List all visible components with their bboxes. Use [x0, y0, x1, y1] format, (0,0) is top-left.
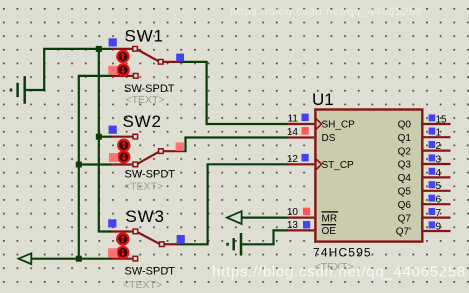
blue marker pin 15 — [429, 114, 436, 121]
SW2 knob down — [118, 151, 129, 162]
svg-text:3: 3 — [436, 154, 442, 165]
blue marker pin 3 — [429, 154, 436, 161]
svg-text:https://blog.csdn.net/qq_44065: https://blog.csdn.net/qq_44065258 — [230, 6, 423, 18]
terminal arrow T1 — [19, 253, 32, 264]
switch SW1 — [108, 26, 184, 106]
clock chevron ST_CP — [316, 159, 321, 169]
switch SW2 — [109, 112, 184, 193]
svg-text:SW-SPDT: SW-SPDT — [125, 169, 176, 181]
pin 10 stub — [288, 217, 315, 219]
pin 1 stub — [423, 136, 451, 138]
svg-text:U1: U1 — [312, 90, 334, 109]
SW3 knob up — [117, 233, 128, 244]
salmon marker SW3 — [108, 248, 117, 257]
junction at bus B / SW3 bottom wire — [76, 256, 82, 262]
SW1 knob up — [117, 51, 128, 62]
svg-text:74HC595: 74HC595 — [313, 245, 372, 259]
svg-text:SW1: SW1 — [125, 26, 164, 45]
SW1 terminal square top — [133, 47, 138, 52]
wire bus A vertical — [99, 49, 112, 232]
SW2 pole stub — [164, 150, 184, 152]
svg-text:https://blog.csdn.net/qq_44065: https://blog.csdn.net/qq_44065258 — [212, 264, 466, 281]
svg-text:10: 10 — [287, 207, 299, 218]
svg-text:Q5: Q5 — [398, 187, 412, 198]
svg-text:<TEXT>: <TEXT> — [123, 279, 162, 291]
SW3 pin stub bottom — [112, 258, 133, 260]
svg-text:SW3: SW3 — [126, 207, 165, 226]
U1 body — [315, 110, 422, 242]
pin 14 stub — [288, 136, 315, 138]
svg-text:4: 4 — [436, 168, 442, 179]
pin 13 stub — [288, 229, 315, 231]
svg-text:15: 15 — [436, 114, 448, 125]
blue marker pin 9 — [429, 221, 436, 228]
SW3 pole square — [160, 242, 165, 247]
pin 4 stub — [423, 176, 451, 178]
svg-text:Q4: Q4 — [398, 173, 412, 184]
SW3 terminal square bottom — [133, 256, 138, 261]
svg-text:SW-SPDT: SW-SPDT — [125, 266, 176, 278]
red marker pin 14 — [302, 127, 309, 135]
svg-text:SH_CP: SH_CP — [322, 120, 356, 131]
svg-text:SW2: SW2 — [123, 112, 162, 131]
SW1 pole square — [158, 60, 163, 65]
blue marker SW3 pole — [177, 235, 185, 243]
wire SW1 pole to pin SH_CP — [181, 62, 289, 124]
SW2 knob up — [118, 140, 129, 151]
svg-text:13: 13 — [287, 220, 299, 231]
SW1 lever — [137, 50, 158, 62]
svg-text:Q6: Q6 — [398, 200, 412, 211]
wire SW2 top branch — [99, 136, 112, 138]
pin 15 stub — [423, 123, 451, 125]
SW3 pin stub top — [112, 230, 133, 232]
svg-text:1: 1 — [436, 128, 442, 139]
SW3 knob down — [117, 247, 128, 258]
blue marker pin 6 — [429, 195, 436, 202]
wire SW2 bottom branch — [79, 163, 113, 165]
svg-text:Q7: Q7 — [398, 213, 412, 224]
svg-text:12: 12 — [287, 154, 299, 165]
svg-text:MR: MR — [322, 213, 338, 224]
blue marker pin 7 — [429, 208, 436, 215]
pin 11 stub — [288, 123, 315, 125]
svg-text:2: 2 — [436, 141, 442, 152]
SW2 lever — [138, 152, 159, 164]
blue marker SW3 label — [108, 219, 116, 227]
junction at bus B / SW2 bottom — [76, 162, 82, 168]
blue marker pin 5 — [429, 181, 436, 188]
SW3 pole stub — [164, 243, 178, 245]
svg-text:Q1: Q1 — [398, 133, 412, 144]
svg-text:<TEXT>: <TEXT> — [126, 94, 165, 106]
svg-text:9: 9 — [436, 221, 442, 232]
pin 6 stub — [423, 203, 451, 205]
right side output pins — [396, 114, 451, 237]
junction at bus A / SW1 top — [96, 46, 102, 52]
blue marker pin 2 — [429, 141, 436, 148]
SW1 pin stub top — [111, 48, 133, 50]
ground GND1 — [11, 76, 25, 104]
clock chevron SH_CP — [316, 119, 321, 129]
svg-text:Q3: Q3 — [398, 160, 412, 171]
SW2 pin stub bottom — [112, 163, 132, 165]
svg-text:14: 14 — [287, 127, 299, 138]
SW2 pole square — [159, 149, 164, 154]
svg-text:ST_CP: ST_CP — [322, 160, 355, 171]
wire MR to terminal arrow — [242, 217, 288, 219]
blue marker SW2 label — [109, 126, 117, 134]
svg-text:OE: OE — [322, 226, 337, 237]
salmon marker SW2 — [109, 153, 118, 162]
svg-text:DS: DS — [322, 133, 336, 144]
svg-text:Q2: Q2 — [398, 146, 412, 157]
SW2 terminal square top — [133, 134, 138, 139]
SW3 terminal square top — [133, 229, 138, 234]
pin 9 stub — [423, 230, 451, 232]
SW2 pin stub top — [112, 136, 133, 138]
svg-text:11: 11 — [288, 114, 299, 125]
pin 5 stub — [423, 190, 451, 192]
SW3 lever — [138, 233, 160, 244]
pin 3 stub — [423, 163, 451, 165]
pin 7 stub — [423, 217, 451, 219]
junction at bus A / SW2 top — [96, 134, 102, 140]
terminal arrow T2 — [227, 211, 242, 224]
blue marker pin 13 — [303, 221, 310, 229]
blue marker pin 12 — [302, 154, 309, 162]
blue marker SW1 pole — [176, 54, 184, 62]
red marker pin 10 — [303, 208, 310, 216]
svg-text:7: 7 — [436, 208, 442, 219]
SW1 terminal square bottom — [133, 74, 138, 79]
salmon marker SW2 pole — [176, 142, 184, 150]
wire SW3 bottom to left terminal arrow — [31, 258, 112, 260]
switch SW3 — [108, 207, 185, 291]
blue marker pin 4 — [429, 168, 436, 175]
wire SW2 pole to pin DS — [184, 138, 289, 152]
SW2 terminal square bottom — [133, 162, 138, 167]
wire SW3 pole to pin ST_CP — [179, 164, 289, 244]
IC U1 74HC595 — [287, 90, 422, 242]
ground GND2 — [228, 233, 241, 256]
blue marker SW1 label — [109, 38, 117, 46]
salmon marker SW1 — [108, 66, 117, 75]
wire OE to ground GND2 — [242, 230, 288, 244]
pin 2 stub — [423, 150, 451, 152]
pin 12 stub — [288, 163, 315, 165]
wire ground1 to bus — [26, 49, 111, 90]
svg-text:5: 5 — [436, 181, 442, 192]
SW1 knob down — [118, 64, 129, 75]
SW1 pole stub — [163, 61, 180, 63]
SW1 pin stub bottom — [112, 75, 133, 77]
svg-text:6: 6 — [436, 195, 442, 206]
svg-text:Q7': Q7' — [396, 227, 411, 238]
svg-text:Q0: Q0 — [398, 120, 412, 131]
svg-text:<TEXT>: <TEXT> — [124, 181, 163, 193]
blue marker pin 11 — [302, 114, 309, 122]
wire SW1 bottom to bus B — [79, 76, 112, 259]
blue marker pin 1 — [429, 128, 436, 135]
